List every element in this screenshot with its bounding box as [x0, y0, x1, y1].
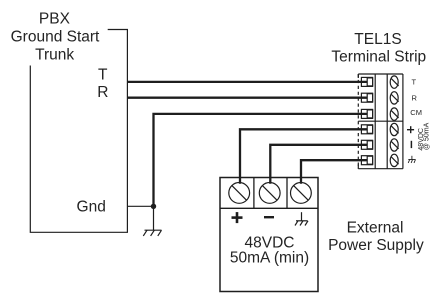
strip screw row 5 — [390, 139, 398, 151]
strip label + — [407, 126, 414, 133]
strip pin row 4 (+) — [361, 125, 372, 134]
strip screw row 1 — [390, 76, 398, 88]
junction dot — [151, 204, 156, 209]
power supply screw ground — [291, 183, 312, 204]
power supply label - — [264, 216, 274, 218]
strip screw row 3 — [390, 108, 398, 120]
svg-text:TEL1S: TEL1S — [354, 31, 401, 48]
power supply label chassis ground — [295, 212, 308, 225]
svg-text:Terminal Strip: Terminal Strip — [331, 48, 426, 65]
wire PS ground: power supply chassis to strip row 6 — [301, 160, 367, 184]
svg-text:Ground Start: Ground Start — [11, 28, 100, 45]
strip pin row 5 (-) — [361, 140, 372, 149]
svg-text:R: R — [412, 93, 418, 102]
strip label - — [410, 141, 412, 148]
power supply terminal divider 1 — [253, 178, 255, 209]
svg-text:PBX: PBX — [39, 11, 71, 28]
svg-text:50mA (min): 50mA (min) — [230, 250, 309, 267]
wire CM: strip row 3 to ground junction — [154, 114, 368, 206]
strip screw row 2 — [390, 92, 398, 104]
wire T: PBX T to strip row 1 — [127, 81, 367, 83]
strip screw row 4 — [390, 123, 398, 135]
power supply screw - — [259, 183, 280, 204]
strip pin row 3 (CM) — [361, 109, 372, 118]
wire +48V: power supply + to strip row 4 — [240, 129, 367, 184]
power supply screw + — [229, 183, 250, 204]
power supply terminal row bottom line — [220, 207, 318, 209]
svg-text:CM: CM — [410, 108, 422, 117]
strip label chassis ground — [408, 156, 415, 163]
strip pin row 6 (ground) — [361, 156, 372, 165]
TEL1S terminal strip body — [358, 74, 403, 169]
svg-text:Power Supply: Power Supply — [328, 237, 424, 254]
svg-text:@ 50mA: @ 50mA — [424, 122, 431, 150]
strip screw row 6 — [390, 154, 398, 166]
power supply label + — [232, 212, 243, 223]
svg-text:R: R — [97, 84, 108, 101]
svg-text:T: T — [412, 78, 417, 87]
power supply box — [220, 178, 318, 292]
strip pin row 1 (T) — [361, 77, 372, 86]
svg-text:T: T — [98, 67, 108, 84]
strip pin row 2 (R) — [361, 93, 372, 102]
PBX trunk box outline — [30, 30, 127, 233]
ground symbol (earth) below junction — [143, 206, 161, 236]
wire R: PBX R to strip row 2 — [127, 97, 367, 99]
svg-text:External: External — [347, 220, 404, 237]
svg-text:Trunk: Trunk — [35, 47, 74, 64]
wire Gnd: PBX Gnd to junction — [127, 205, 153, 207]
svg-text:Gnd: Gnd — [77, 199, 106, 216]
wire -48V: power supply - to strip row 5 — [270, 145, 367, 184]
power supply terminal divider 2 — [286, 178, 288, 209]
